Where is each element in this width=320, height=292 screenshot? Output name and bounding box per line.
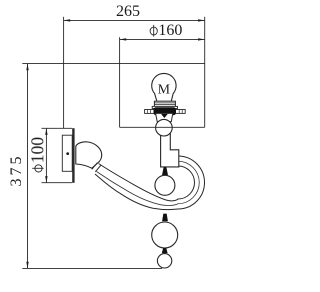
ball A (below shade): [156, 119, 173, 136]
dimension phi160 diameter symbol: [150, 27, 157, 35]
extension line 375 top (collinear with shade top): [22, 63, 204, 65]
dimension 265 left arrow: [64, 19, 71, 21]
socket body (black): [154, 107, 177, 115]
cup black wedge: [161, 114, 168, 118]
svg-text:160: 160: [158, 22, 182, 39]
canopy screw dot: [66, 152, 69, 155]
ball C: [152, 222, 178, 248]
wall knob: [76, 142, 102, 168]
ball D: [157, 254, 171, 268]
dimension 375 top arrow: [26, 64, 28, 71]
socket collar: [152, 106, 177, 108]
dimension 265 line: [64, 19, 205, 21]
extension line phi160 left, continues as shade left edge: [119, 37, 121, 127]
dimension phi160 right arrow: [198, 38, 205, 40]
dimension 375 bottom arrow: [26, 262, 28, 269]
shade (cylinder outline is formed by extension lines); bulb glass: [152, 73, 176, 101]
dimension phi100 top arrow: [45, 128, 47, 135]
joint tick 2: [162, 214, 168, 222]
ball B: [155, 175, 175, 195]
bulb screw base: [154, 101, 175, 106]
dimension phi100 extension top: [42, 127, 73, 129]
arm tube middle line: [97, 161, 200, 205]
knob collar lines: [92, 163, 98, 170]
svg-text:M: M: [158, 81, 170, 96]
shade bottom line (crosses ball A): [120, 126, 205, 128]
arm tube bottom edge: [95, 156, 205, 209]
dimension 265 right arrow: [198, 19, 205, 21]
dimension phi100 diameter symbol: [35, 165, 42, 172]
wall plate (side view bar): [72, 128, 74, 183]
svg-text:375: 375: [8, 154, 25, 187]
joint tick 1: [162, 167, 168, 175]
dimension phi100 extension bottom: [42, 182, 73, 184]
holder cup: [156, 113, 173, 121]
dimension 375 line: [27, 64, 29, 269]
dimension phi100 line: [45, 128, 47, 182]
holder flange: [145, 110, 186, 114]
elbow pipe: [161, 131, 179, 167]
joint tick 3: [162, 248, 168, 253]
dimension phi100 bottom arrow: [45, 176, 47, 183]
extension line right (shade edge), continues as shade right edge: [204, 17, 206, 128]
dimension phi160 left arrow: [120, 38, 127, 40]
wall canopy box: [62, 135, 72, 171]
extension line left (wall plane): [63, 17, 65, 128]
svg-text:265: 265: [116, 3, 140, 20]
extension line 375 bottom: [22, 267, 162, 269]
dimension phi160 line: [120, 38, 205, 40]
arm tube top edge: [99, 164, 195, 201]
svg-text:100: 100: [27, 137, 47, 164]
